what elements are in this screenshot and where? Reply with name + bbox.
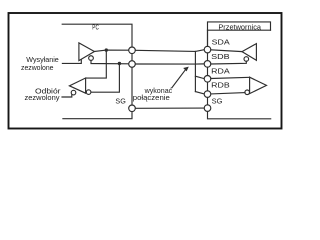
wire: receive enable (Odbior zezwolony) [62, 95, 72, 97]
wire: left column terminal2 to SG [131, 67, 133, 105]
wire: net A from U1 output to PC terminal 1 [94, 50, 128, 51]
PC terminal 1 [129, 47, 136, 54]
line driver U1 (PC transmit) [79, 43, 95, 61]
wire: net A drop to receiver U2 [86, 50, 107, 78]
junction node B [118, 62, 121, 65]
inverting input bubble of U4 [245, 90, 250, 95]
wire: net B from U1 bubble to PC terminal 2 [91, 60, 129, 64]
line receiver U2 (PC receive) [69, 78, 85, 93]
svg-text:SDA: SDA [212, 38, 230, 47]
svg-text:Przetwornica: Przetwornica [218, 22, 262, 31]
terminal SDA [204, 46, 211, 53]
terminal SDB [204, 61, 211, 68]
wire: net B drop to receiver U2 [91, 64, 120, 93]
wire: right column segments [207, 30, 209, 46]
arrowhead of annotation arrow [183, 67, 189, 72]
terminal RDB [204, 91, 211, 98]
jumper wire SDA-RDA / SDB-RDB [194, 51, 196, 91]
wire: SG return along PC box bottom [63, 112, 132, 119]
svg-text:SG: SG [115, 97, 126, 106]
wire: transmit enable (Wysylanie zezwolone) [62, 60, 81, 63]
inverting bubble of U3 [244, 57, 249, 62]
Przetwornica title underline [208, 29, 271, 31]
svg-text:PC: PC [92, 24, 99, 31]
wire: SDA link PC terminal1 to converter [135, 50, 203, 52]
svg-text:SDB: SDB [211, 52, 230, 61]
terminal RDA [204, 76, 211, 83]
svg-text:SG: SG [212, 96, 223, 105]
wire: SDB link PC terminal2 to converter [135, 63, 204, 65]
junction node A [105, 48, 108, 51]
wire: RDA into converter receiver U4 [211, 77, 250, 78]
Przetwornica device box [208, 22, 271, 46]
wire: RDB into U4 bubble [211, 93, 245, 94]
outer frame [9, 13, 282, 129]
svg-text:zezwolony: zezwolony [25, 93, 60, 102]
annotation arrow: wykonac polaczenie [172, 70, 186, 88]
inverting input bubble of U2 [86, 90, 91, 95]
svg-text:zezwolone: zezwolone [21, 63, 54, 72]
terminal SG converter [204, 105, 211, 112]
wire: SDB into U3 bubble [211, 61, 246, 64]
svg-text:RDA: RDA [211, 67, 230, 76]
inverting bubble of U1 [89, 56, 94, 61]
svg-text:połączenie: połączenie [133, 93, 170, 102]
PC terminal SG [129, 105, 136, 112]
enable bubble of U2 [71, 90, 76, 95]
wire: SG link between SG terminals [136, 107, 205, 109]
wire: left column between terminals [131, 54, 133, 61]
line receiver U4 (converter receive) [250, 77, 267, 93]
wire: SDA into converter driver U3 [211, 50, 242, 52]
svg-text:RDB: RDB [211, 81, 230, 90]
jumper branch to RDA [195, 76, 204, 78]
jumper branch to RDB [195, 92, 203, 94]
PC device box [62, 24, 132, 47]
wire: converter SG return [208, 111, 271, 118]
PC terminal 2 [129, 61, 136, 68]
line driver U3 (converter transmit) [242, 44, 256, 61]
